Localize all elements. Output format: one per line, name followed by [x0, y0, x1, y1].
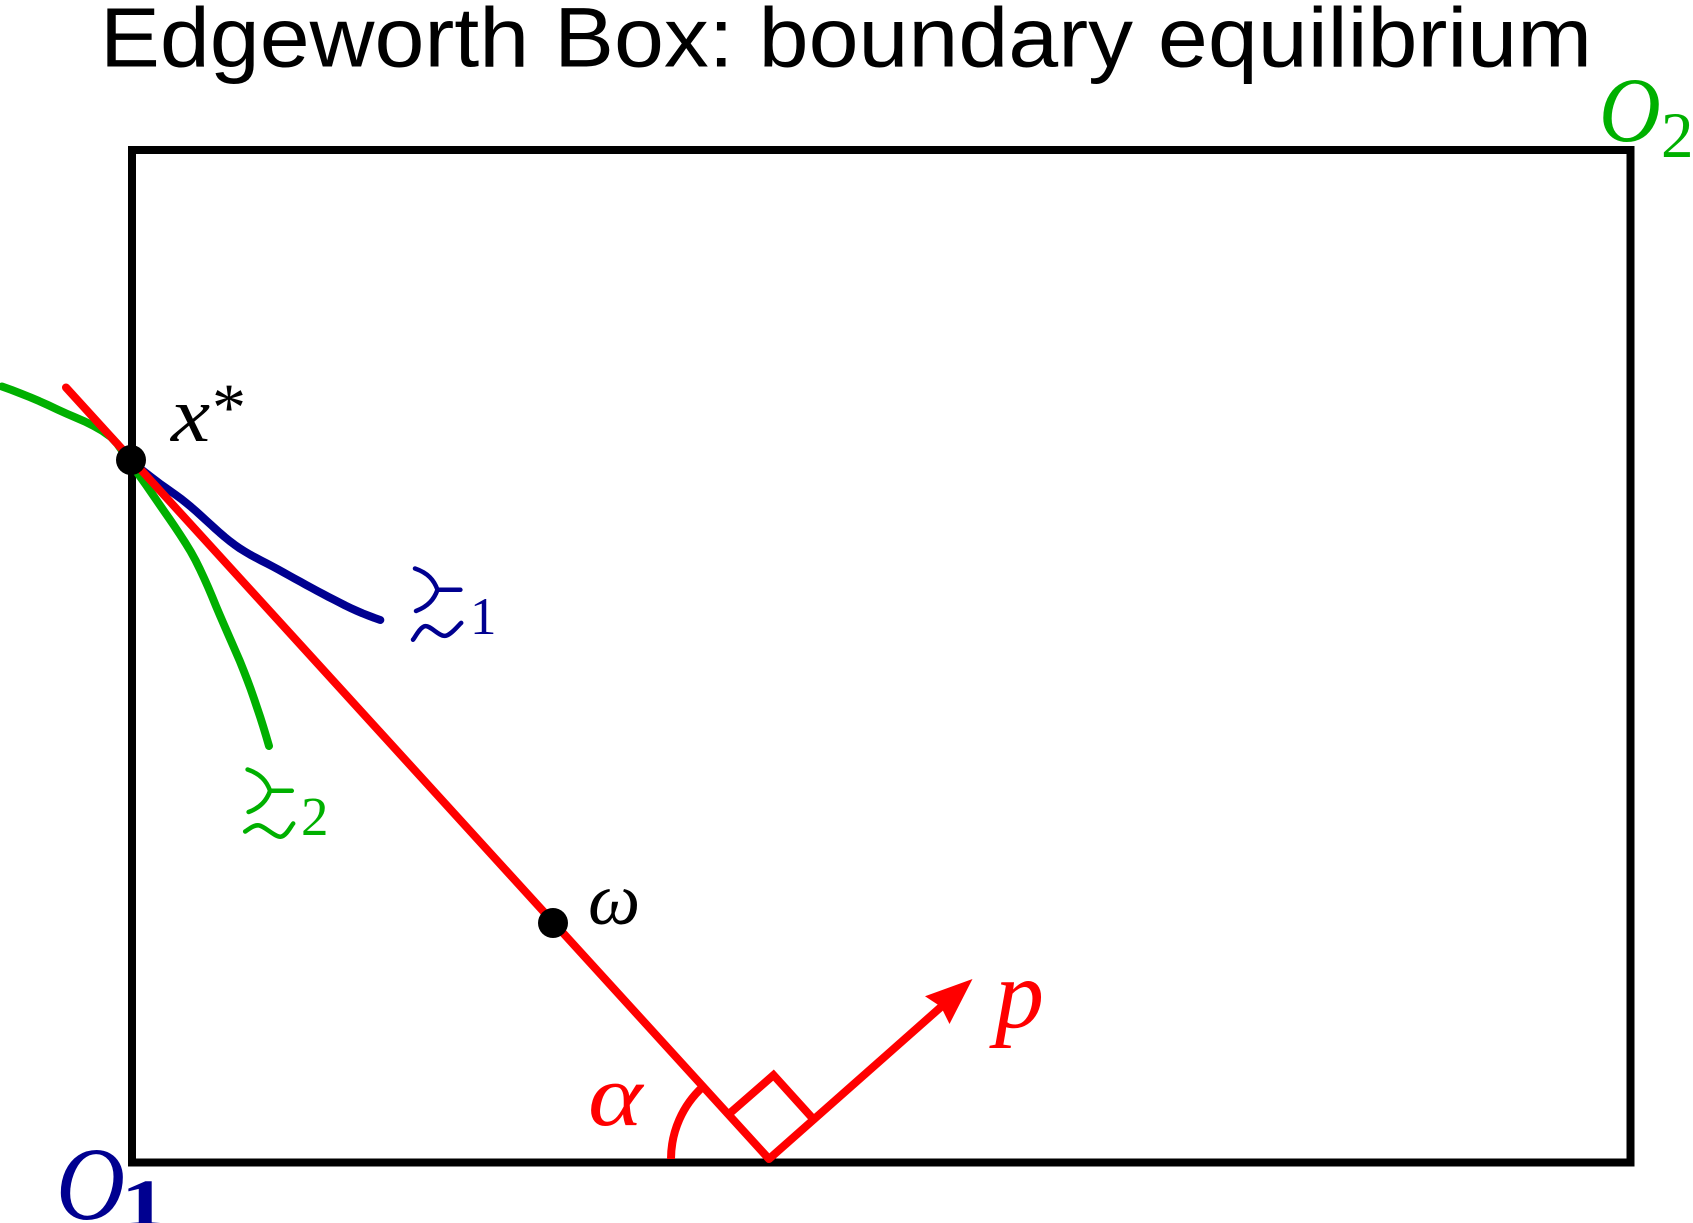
- svg-text:x: x: [169, 373, 210, 459]
- svg-text:O: O: [1599, 60, 1661, 161]
- svg-text:*: *: [212, 369, 246, 445]
- svg-text:1: 1: [470, 588, 497, 646]
- svg-text:ω: ω: [588, 859, 640, 941]
- svg-text:2: 2: [301, 786, 329, 847]
- svg-text:α: α: [588, 1046, 645, 1144]
- svg-text:1: 1: [121, 1166, 167, 1223]
- svg-text:p: p: [989, 941, 1044, 1049]
- svg-text:Edgeworth Box: boundary equili: Edgeworth Box: boundary equilibrium: [100, 0, 1592, 85]
- svg-text:O: O: [56, 1126, 125, 1223]
- svg-text:2: 2: [1661, 100, 1693, 172]
